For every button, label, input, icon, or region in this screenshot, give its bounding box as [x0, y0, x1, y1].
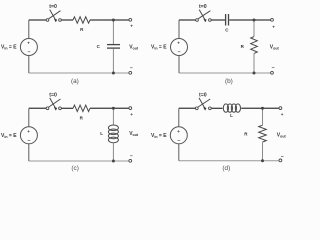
svg-text:−: − — [281, 154, 284, 160]
svg-text:Vin = E: Vin = E — [1, 45, 17, 51]
svg-text:−: − — [130, 154, 133, 160]
svg-text:+: + — [281, 112, 284, 117]
svg-text:+: + — [177, 129, 180, 134]
svg-text:+: + — [130, 24, 133, 29]
svg-text:−: − — [130, 66, 133, 72]
svg-text:L: L — [230, 113, 233, 118]
svg-text:−: − — [28, 138, 31, 144]
svg-text:t=0: t=0 — [199, 93, 207, 99]
svg-text:Vin = E: Vin = E — [1, 133, 17, 139]
svg-text:(c): (c) — [71, 165, 78, 172]
svg-text:−: − — [178, 138, 181, 144]
svg-text:Vin = E: Vin = E — [151, 133, 167, 139]
svg-text:+: + — [272, 25, 275, 30]
svg-text:+: + — [27, 129, 30, 134]
svg-text:(a): (a) — [71, 78, 79, 85]
svg-text:L: L — [100, 131, 103, 136]
svg-text:Vin = E: Vin = E — [151, 45, 167, 51]
svg-text:t=0: t=0 — [199, 4, 207, 10]
svg-text:+: + — [177, 41, 180, 46]
svg-text:(b): (b) — [225, 78, 233, 85]
svg-text:−: − — [28, 50, 31, 56]
svg-text:(d): (d) — [222, 165, 230, 172]
svg-text:t=0: t=0 — [49, 93, 57, 99]
svg-text:−: − — [178, 50, 181, 56]
svg-text:+: + — [27, 41, 30, 46]
svg-text:+: + — [130, 112, 133, 117]
svg-text:−: − — [272, 65, 275, 71]
svg-text:t=0: t=0 — [49, 4, 57, 10]
